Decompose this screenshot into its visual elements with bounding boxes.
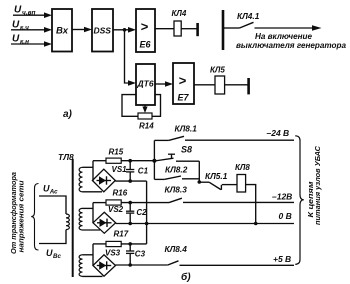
svg-text:ТЛ8: ТЛ8 bbox=[58, 152, 74, 162]
wire arrow to generator breaker bbox=[255, 25, 322, 31]
node C1 top bbox=[128, 159, 132, 163]
secondary winding 2 bbox=[79, 208, 100, 230]
node C3 top bbox=[128, 242, 132, 246]
wire E7 to KL5 bbox=[194, 84, 215, 86]
potentiometer wiper arrow bbox=[142, 105, 147, 113]
svg-text:VS3: VS3 bbox=[105, 249, 121, 258]
resistor R17 bbox=[106, 241, 121, 246]
relay coil KL8 bbox=[237, 175, 246, 193]
input U_ch.vp arrow wire bbox=[13, 12, 52, 18]
row2 top rail left bbox=[93, 202, 106, 204]
transformer primary winding loop bbox=[39, 196, 69, 244]
svg-text:КЛ4: КЛ4 bbox=[172, 9, 187, 18]
svg-text:R15: R15 bbox=[109, 147, 124, 156]
row3 feed vertical bbox=[92, 244, 94, 266]
svg-text:КЛ8.2: КЛ8.2 bbox=[165, 165, 188, 175]
wire KL5 to terminal bbox=[225, 84, 248, 86]
row3 top rail left bbox=[93, 243, 106, 245]
brace left bbox=[31, 184, 38, 251]
feedback loop right to R14 bbox=[152, 95, 161, 117]
terminal bar 2 bbox=[247, 78, 250, 94]
brace right bbox=[295, 136, 304, 264]
bridge rectifier VS1 bbox=[92, 169, 115, 192]
svg-text:напряжения сети: напряжения сети bbox=[19, 180, 26, 253]
comparator E7 bbox=[173, 63, 194, 104]
wire E6 to KL4 bbox=[155, 28, 174, 30]
svg-text:VS1: VS1 bbox=[112, 165, 128, 174]
svg-text:Е7: Е7 bbox=[178, 93, 190, 103]
svg-text:КЛ8.3: КЛ8.3 bbox=[165, 185, 188, 195]
contact KL4.1 vertical bar bbox=[222, 10, 225, 50]
svg-text:>: > bbox=[141, 19, 149, 34]
potentiometer R14 bbox=[138, 113, 152, 119]
svg-text:КЛ5: КЛ5 bbox=[210, 66, 225, 75]
feedback loop left to R14 bbox=[122, 95, 138, 117]
KL8 return wire bbox=[246, 185, 256, 224]
svg-text:б): б) bbox=[181, 271, 191, 283]
0V rail bbox=[116, 223, 294, 225]
svg-text:Вс: Вс bbox=[53, 253, 61, 260]
terminal bar bbox=[196, 23, 199, 36]
svg-text:КЛ5.1: КЛ5.1 bbox=[205, 171, 228, 181]
svg-text:R16: R16 bbox=[113, 189, 128, 198]
node KL8 return on 0V bbox=[254, 222, 258, 226]
node return on 0V bbox=[145, 222, 149, 226]
wire DT6 to E7 bbox=[155, 81, 173, 87]
node C2 top bbox=[128, 201, 132, 205]
capacitor C1 bbox=[126, 161, 134, 181]
svg-text:+5 В: +5 В bbox=[273, 254, 291, 264]
contact KL5.1 bbox=[199, 182, 237, 190]
svg-text:U: U bbox=[14, 5, 22, 16]
row3 top rail right bbox=[121, 243, 146, 245]
bus vertical KL8 feed bbox=[153, 140, 155, 179]
row1 top rail right bbox=[121, 160, 154, 162]
svg-text:–12В: –12В bbox=[272, 191, 292, 201]
wire DSS to E6 bbox=[113, 27, 136, 33]
secondary winding 1 bbox=[79, 167, 102, 192]
capacitor C2 bbox=[126, 203, 134, 224]
svg-text:КЛ4.1: КЛ4.1 bbox=[237, 11, 260, 21]
input U_k.ch arrow wire bbox=[11, 27, 52, 33]
svg-text:0 В: 0 В bbox=[279, 211, 292, 221]
secondary winding 3 bbox=[79, 255, 102, 277]
relay coil KL4 bbox=[174, 21, 181, 36]
svg-text:а): а) bbox=[63, 109, 73, 120]
contact KL8.2 bbox=[154, 176, 199, 179]
contact KL8.4 bbox=[168, 261, 294, 266]
svg-text:R17: R17 bbox=[114, 229, 129, 238]
svg-text:КЛ8.1: КЛ8.1 bbox=[175, 123, 198, 133]
block DT6 bbox=[136, 64, 155, 105]
transformer core bbox=[72, 159, 74, 277]
row2 feed vertical bbox=[92, 203, 94, 223]
svg-text:R14: R14 bbox=[139, 122, 154, 131]
block DSS bbox=[92, 9, 113, 52]
block BX (Vx) bbox=[52, 9, 72, 52]
svg-text:VS2: VS2 bbox=[108, 205, 124, 214]
svg-text:Ас: Ас bbox=[49, 188, 58, 195]
contact KL4.1 blade bbox=[224, 22, 254, 28]
relay coil KL5 bbox=[215, 76, 225, 94]
+5V rail left bbox=[116, 264, 168, 266]
row2 top rail right bbox=[121, 202, 169, 204]
svg-text:>: > bbox=[179, 73, 187, 88]
svg-text:С2: С2 bbox=[136, 208, 147, 217]
row1 return vertical bbox=[146, 181, 148, 244]
node B bbox=[198, 180, 202, 184]
svg-text:ДТ6: ДТ6 bbox=[137, 78, 154, 88]
svg-text:С3: С3 bbox=[135, 249, 146, 258]
svg-text:–24 В: –24 В bbox=[267, 128, 290, 138]
svg-text:U: U bbox=[12, 20, 20, 31]
capacitor C3 bbox=[126, 244, 134, 265]
bridge rectifier VS3 bbox=[93, 255, 116, 276]
contact KL8.1 bbox=[154, 136, 294, 140]
pushbutton S8 bbox=[154, 154, 199, 161]
svg-text:КЛ8: КЛ8 bbox=[235, 163, 250, 172]
svg-text:S8: S8 bbox=[181, 145, 192, 155]
input U_k.n arrow wire bbox=[11, 41, 52, 47]
node C2 bottom bbox=[128, 222, 132, 226]
node bus A bbox=[152, 159, 156, 163]
svg-text:К цепям: К цепям bbox=[308, 180, 315, 217]
svg-text:DSS: DSS bbox=[94, 26, 112, 36]
svg-text:ч.вп: ч.вп bbox=[22, 10, 36, 17]
svg-text:Е6: Е6 bbox=[140, 40, 152, 50]
svg-text:выключателя генератора: выключателя генератора bbox=[236, 41, 346, 50]
contact KL8.3 bbox=[169, 198, 294, 202]
svg-text:U: U bbox=[46, 248, 53, 258]
svg-text:С1: С1 bbox=[138, 166, 149, 175]
node C1 bottom bbox=[128, 179, 132, 183]
wire KL4 to terminal bbox=[181, 28, 196, 30]
svg-text:U: U bbox=[12, 34, 20, 45]
node junction after DSS bbox=[123, 28, 127, 32]
svg-text:На включение: На включение bbox=[255, 32, 312, 41]
svg-text:к.н: к.н bbox=[20, 39, 29, 46]
row1 top rail left bbox=[93, 160, 106, 162]
svg-text:питания узлов УБАС: питания узлов УБАС bbox=[315, 145, 322, 225]
svg-text:КЛ8.4: КЛ8.4 bbox=[165, 244, 188, 254]
svg-text:От трансформатора: От трансформатора bbox=[11, 172, 18, 254]
svg-text:к.ч: к.ч bbox=[20, 25, 29, 32]
row1 bottom rail bbox=[115, 180, 146, 182]
S8 branch down bbox=[198, 161, 200, 182]
row1 feed vertical bbox=[92, 161, 94, 181]
comparator E6 bbox=[136, 9, 155, 52]
svg-text:Вх: Вх bbox=[56, 26, 69, 37]
resistor R15 bbox=[106, 158, 121, 163]
wire DSS node down to DT6 bbox=[125, 30, 137, 86]
resistor R16 bbox=[106, 200, 121, 205]
bridge rectifier VS2 bbox=[93, 212, 116, 233]
node C3 bottom bbox=[128, 263, 132, 267]
wire BX to DSS bbox=[72, 27, 92, 33]
